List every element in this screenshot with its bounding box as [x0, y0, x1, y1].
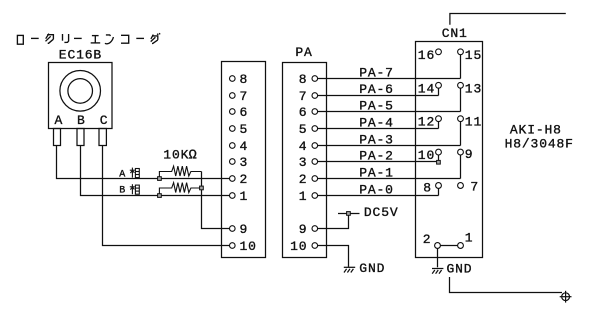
svg-text:7: 7: [470, 180, 479, 195]
svg-text:9: 9: [240, 222, 249, 237]
svg-text:A: A: [54, 113, 63, 128]
svg-text:8: 8: [240, 72, 249, 87]
svg-text:PA: PA: [295, 45, 312, 60]
svg-text:7: 7: [240, 89, 249, 104]
svg-text:10: 10: [418, 148, 435, 163]
svg-text:8: 8: [299, 72, 308, 87]
svg-text:1: 1: [299, 189, 308, 204]
svg-text:DC5V: DC5V: [364, 205, 399, 220]
svg-text:15: 15: [465, 48, 482, 63]
svg-text:B: B: [77, 113, 86, 128]
svg-text:PA-6: PA-6: [359, 82, 394, 97]
svg-text:16: 16: [418, 48, 435, 63]
svg-text:10K: 10K: [163, 148, 189, 163]
svg-text:PA-7: PA-7: [359, 65, 394, 80]
svg-text:5: 5: [240, 122, 249, 137]
svg-text:GND: GND: [359, 261, 385, 276]
svg-text:AKI-H8: AKI-H8: [510, 123, 562, 138]
svg-text:10: 10: [290, 239, 307, 254]
svg-text:GND: GND: [447, 262, 473, 277]
svg-text:3: 3: [240, 155, 249, 170]
svg-text:PA-4: PA-4: [359, 115, 394, 130]
svg-text:Ω: Ω: [189, 149, 198, 164]
svg-text:4: 4: [299, 139, 308, 154]
svg-text:9: 9: [465, 147, 474, 162]
svg-text:13: 13: [465, 81, 482, 96]
svg-text:PA-2: PA-2: [359, 148, 394, 163]
svg-text:PA-3: PA-3: [359, 132, 394, 147]
svg-text:EC16B: EC16B: [59, 48, 102, 63]
svg-text:A: A: [119, 170, 125, 181]
svg-text:10: 10: [240, 239, 257, 254]
svg-text:1: 1: [240, 189, 249, 204]
svg-text:4: 4: [240, 139, 249, 154]
svg-text:B: B: [119, 186, 125, 197]
svg-text:PA-1: PA-1: [359, 165, 394, 180]
svg-text:6: 6: [240, 105, 249, 120]
svg-text:H8/3048F: H8/3048F: [505, 137, 574, 152]
svg-text:PA-5: PA-5: [359, 98, 394, 113]
svg-text:12: 12: [418, 115, 435, 130]
svg-text:2: 2: [299, 172, 308, 187]
svg-text:2: 2: [423, 232, 432, 247]
svg-text:3: 3: [299, 155, 308, 170]
svg-text:C: C: [100, 113, 109, 128]
svg-text:2: 2: [240, 172, 249, 187]
svg-text:7: 7: [299, 89, 308, 104]
svg-text:14: 14: [418, 81, 435, 96]
svg-text:9: 9: [299, 222, 308, 237]
svg-text:8: 8: [423, 181, 432, 196]
svg-text:11: 11: [465, 115, 482, 130]
svg-text:CN1: CN1: [442, 26, 468, 41]
svg-text:5: 5: [299, 122, 308, 137]
svg-text:1: 1: [465, 231, 474, 246]
svg-text:6: 6: [299, 105, 308, 120]
svg-text:PA-0: PA-0: [359, 182, 394, 197]
